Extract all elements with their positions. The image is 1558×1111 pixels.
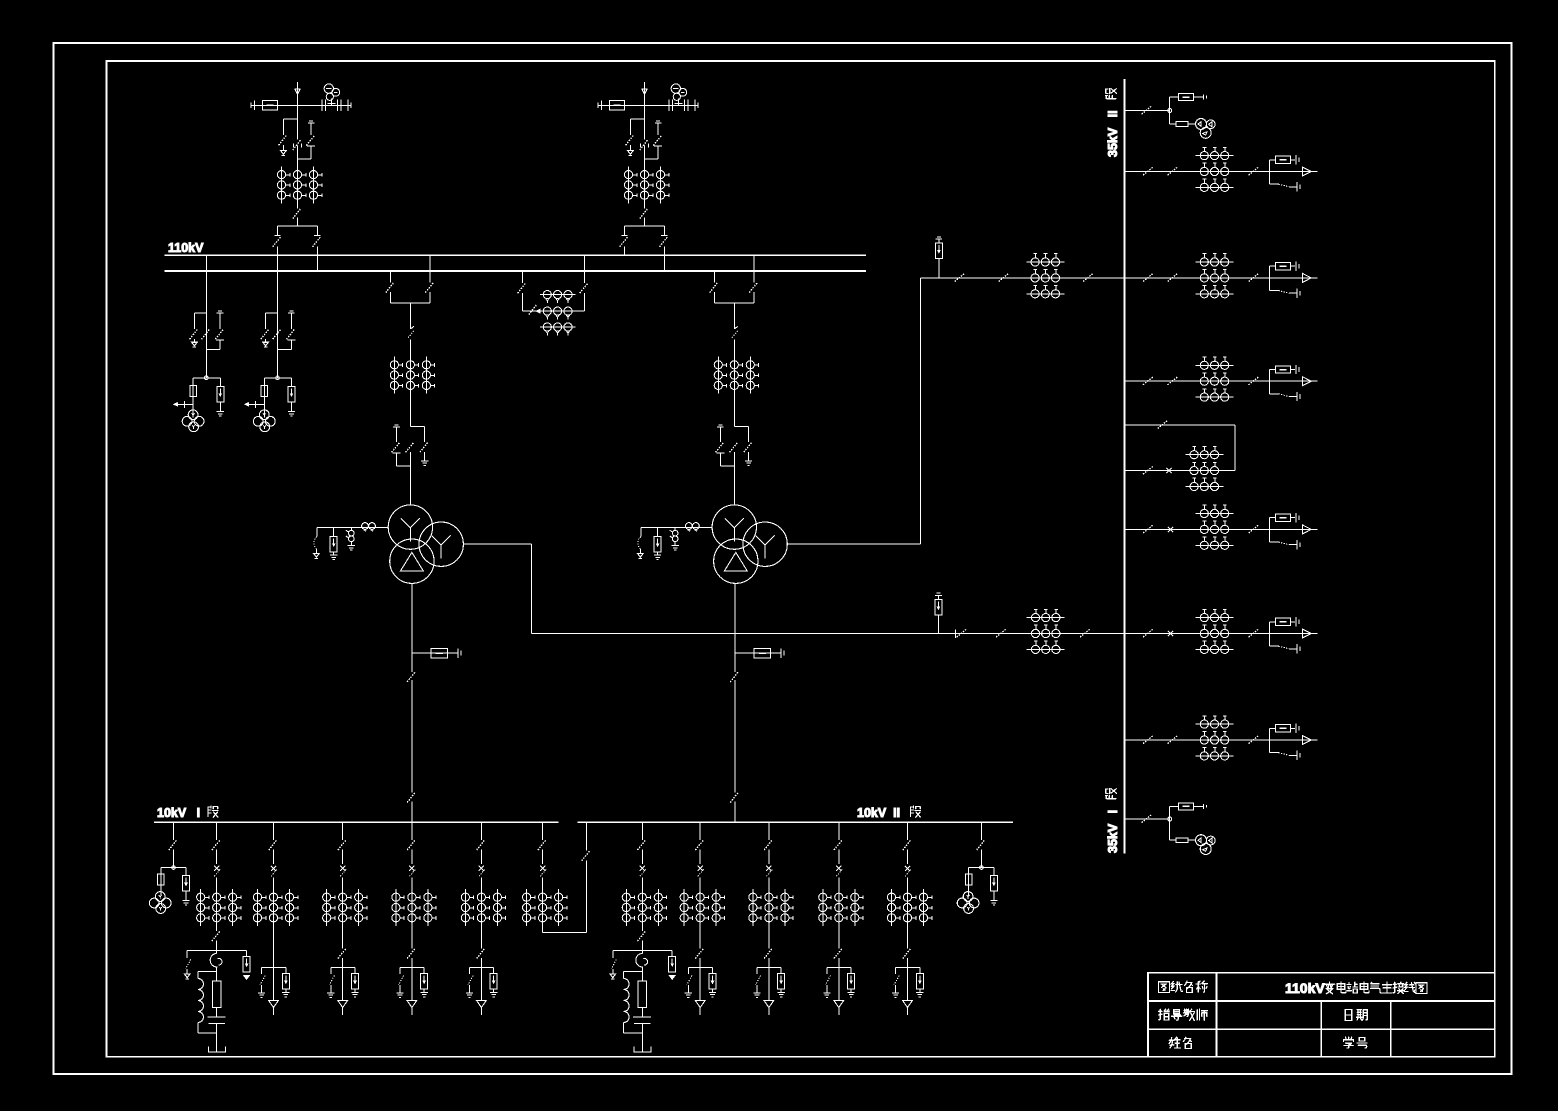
wire [251, 104, 351, 106]
wire [273, 926, 275, 967]
fuse [158, 874, 164, 885]
earthing switch [687, 967, 689, 974]
earthing switch [895, 967, 897, 974]
current transformers [526, 889, 528, 926]
ground [654, 554, 661, 556]
disconnector [644, 203, 646, 208]
wire bracket [161, 867, 186, 869]
disconnector [411, 926, 413, 948]
disconnector [582, 851, 590, 861]
cable arrow [342, 967, 344, 1000]
disconnector [640, 140, 648, 150]
35kV station PT feeder top [1124, 94, 1215, 139]
node [172, 866, 176, 870]
ground [182, 900, 189, 902]
earthing switch [330, 967, 332, 974]
arrester [246, 951, 248, 957]
bus 110kV line B [165, 270, 867, 272]
terminal ticks [597, 103, 599, 108]
disconnector [620, 237, 628, 247]
surge arrester [217, 386, 224, 402]
feeder lower works [685, 926, 716, 1015]
PT branch with fuse [1170, 839, 1177, 841]
drawout breaker and line exit [1269, 266, 1271, 290]
current transformers [891, 889, 893, 926]
neutral resistor [212, 981, 221, 1007]
disconnector [542, 822, 544, 840]
disconnector [386, 282, 394, 292]
T2 LV lead to 10kV bus [734, 583, 736, 672]
current transformers [281, 166, 283, 203]
disconnector [407, 792, 415, 802]
wire [542, 926, 544, 932]
wire [206, 348, 220, 350]
disconnector [293, 140, 301, 150]
35kV feeder L4 [1124, 505, 1317, 549]
disconnector [1143, 273, 1153, 281]
breaker [766, 866, 771, 871]
disconnector [1249, 629, 1259, 637]
line arrow [1303, 167, 1312, 176]
surge arrester [990, 876, 997, 892]
disconnector [411, 822, 413, 840]
wire [641, 1007, 643, 1017]
wire bracket [969, 867, 994, 869]
current transformers [1196, 513, 1234, 515]
CVT voltage transformer [328, 103, 336, 105]
cable arrow [768, 967, 770, 1000]
wire [273, 878, 275, 890]
disconnector [695, 948, 703, 958]
current transformers [625, 889, 627, 926]
surge arrester [282, 974, 289, 990]
discharge gap [674, 528, 676, 531]
disconnector [392, 442, 400, 452]
feeder lower works [396, 926, 427, 1015]
ground [351, 991, 358, 993]
disconnector [1143, 735, 1153, 743]
breaker [1168, 631, 1173, 636]
label char duan [910, 806, 920, 817]
35kV station PT feeder bottom [1124, 803, 1215, 855]
breaker [479, 866, 484, 871]
disconnector [215, 329, 223, 339]
surge arrester [421, 974, 428, 990]
wire [1124, 528, 1317, 530]
transformer disconnector w/ earthing switches [410, 426, 424, 428]
disconnector [477, 840, 485, 850]
wire bracket [522, 310, 584, 312]
disconnector [529, 304, 537, 314]
station transformer [1179, 94, 1194, 101]
line arrow [1303, 274, 1312, 283]
disconnector [212, 840, 220, 850]
fuse + PT [968, 868, 970, 875]
disconnector with earthing switches [266, 312, 278, 314]
earth-switch head [309, 120, 313, 122]
110kV bus PT bay 1 [174, 255, 224, 431]
breaker [698, 866, 703, 871]
drawout breaker and line exit [1269, 622, 1271, 646]
svg-text:10kV I: 10kV I [157, 806, 200, 820]
disconnector [338, 840, 346, 850]
neutral earthing switch [640, 528, 642, 537]
disconnector [768, 926, 770, 948]
neutral arrester [657, 528, 659, 537]
disconnector [293, 208, 301, 218]
disconnector [699, 822, 701, 840]
disconnector [273, 329, 281, 339]
ground [348, 545, 355, 547]
current transformers [1196, 617, 1234, 619]
bus tie breaker bay [523, 822, 567, 926]
disconnector [269, 840, 277, 850]
current transformers [717, 357, 719, 394]
ground [421, 460, 428, 462]
current transformers [1026, 261, 1064, 263]
ground [990, 900, 997, 902]
disconnector [764, 948, 772, 958]
disconnector [1142, 814, 1152, 822]
ground [745, 460, 752, 462]
bus 10kV section II [577, 821, 1013, 823]
breaker [1275, 618, 1290, 625]
transformer T1 MV winding [419, 522, 463, 566]
earthing switch [657, 123, 659, 135]
disconnector [764, 840, 772, 850]
10kV feeder [680, 822, 724, 926]
disconnector [730, 792, 738, 802]
disconnector [730, 442, 738, 452]
section breaker [1166, 468, 1171, 473]
disconnector [1143, 629, 1153, 637]
station transformer branch [1170, 805, 1179, 807]
earthing switch [469, 967, 471, 974]
neutral CTs [686, 523, 693, 530]
surge arrester [183, 876, 190, 892]
earthing switch [826, 967, 828, 974]
disconnector [640, 208, 648, 218]
wire [409, 394, 411, 427]
earth terminal [610, 974, 616, 978]
disconnector [768, 822, 770, 840]
cable arrow [480, 967, 482, 1000]
wire [342, 878, 344, 890]
35kV sectionalised bus [1123, 79, 1125, 853]
disconnector [273, 822, 275, 840]
line trap [262, 100, 277, 110]
disconnector [834, 948, 842, 958]
disconnector [338, 948, 346, 958]
wire [1124, 277, 1317, 279]
feeder lower works [258, 926, 289, 1015]
T1 LV lead to 10kV bus [411, 583, 413, 672]
svg-text:110kV: 110kV [168, 241, 204, 255]
disconnector [1168, 167, 1178, 175]
wire [838, 878, 840, 890]
earthing switch [282, 119, 284, 135]
disconnector [342, 926, 344, 948]
neutral resistor [638, 981, 647, 1007]
earthing transformer hook [216, 951, 218, 954]
surge arrester [778, 974, 785, 990]
wire bracket [827, 966, 851, 968]
T1 tie row equipment [935, 593, 1090, 653]
disconnector [216, 926, 218, 931]
fuse [261, 386, 267, 397]
ground [892, 992, 899, 994]
10kV bus PT bay II [957, 822, 997, 913]
wire [641, 878, 643, 890]
title block table [1148, 973, 1495, 1057]
disconnector [538, 840, 546, 850]
node [1168, 817, 1172, 821]
label char duan [1106, 88, 1117, 98]
transformer disconnector w/ earthing switches [734, 426, 748, 428]
incoming line arrow [644, 82, 646, 105]
disconnector [980, 822, 982, 840]
ground [217, 411, 224, 413]
disconnector [1249, 525, 1259, 533]
10kV feeder [253, 822, 297, 926]
disconnector [1143, 466, 1153, 474]
terminal ticks [250, 103, 252, 108]
voltage transformer [188, 410, 198, 420]
surge arrester [654, 536, 661, 552]
tie disconnector to section II [586, 822, 588, 850]
ground [778, 991, 785, 993]
wire [480, 878, 482, 890]
terminal ticks [347, 100, 349, 112]
disconnector [716, 442, 724, 452]
disconnector [173, 822, 175, 840]
title cell: supervisor label [1158, 1009, 1169, 1020]
ground [685, 992, 692, 994]
disconnector [744, 442, 752, 452]
current transformers [683, 889, 685, 926]
wire [409, 303, 411, 329]
neutral arrester [333, 528, 335, 537]
wire [396, 465, 410, 467]
arrester [712, 967, 714, 973]
three-winding transformer T2 : HV winding [712, 505, 756, 549]
earth-switch head [718, 424, 722, 426]
disconnector [480, 822, 482, 840]
wire bracket [187, 950, 246, 952]
disconnector [518, 283, 526, 293]
current transformers [1196, 155, 1234, 157]
wire [720, 465, 734, 467]
voltage transformer [155, 892, 165, 902]
disconnector [838, 822, 840, 840]
disconnector [297, 203, 299, 208]
earth-switch head [394, 424, 398, 426]
circuit breaker [411, 326, 414, 329]
10kV feeder [461, 822, 505, 926]
wire bracket [331, 966, 355, 968]
earthing switch [1270, 645, 1279, 647]
drawout breaker and line exit [1269, 518, 1271, 542]
wire [283, 118, 297, 120]
title cell: date label [1345, 1010, 1351, 1021]
disconnector [1249, 167, 1259, 175]
wire bracket [613, 950, 672, 952]
drawout breaker and line exit [1269, 370, 1271, 394]
earthing switch [612, 951, 614, 959]
10kV feeder [392, 822, 436, 926]
bus selector bridge [625, 225, 665, 227]
breaker [1275, 725, 1290, 732]
neutral earthing group [317, 527, 388, 529]
ground [916, 991, 923, 993]
earth terminal [314, 554, 320, 558]
current transformers [326, 889, 328, 926]
arrester [185, 868, 187, 876]
current transformers [628, 166, 630, 203]
drawout breaker and line exit [1269, 160, 1271, 184]
35kV feeder L1 [1124, 147, 1317, 191]
wire bracket [470, 966, 494, 968]
label char duan [1106, 788, 1117, 798]
breaker [640, 866, 645, 871]
station transformer [1179, 803, 1194, 810]
drawing frame inner border [107, 61, 1495, 1057]
earth terminal [263, 342, 269, 346]
wire from bus [1124, 110, 1169, 112]
disconnector [1143, 525, 1153, 533]
line trap [609, 100, 624, 110]
disconnector [903, 840, 911, 850]
10kV feeder [819, 822, 863, 926]
disconnector pole from bus B [521, 271, 523, 283]
wire bracket [688, 966, 712, 968]
cable arrow [273, 967, 275, 1000]
wire bracket [262, 966, 286, 968]
breaker [836, 866, 841, 871]
earthing switch [1270, 541, 1279, 543]
capacitor [633, 1016, 651, 1018]
arrester [354, 967, 356, 973]
current transformers [257, 889, 259, 926]
earthing switch [1270, 752, 1279, 754]
disconnector [169, 840, 177, 850]
disconnector [580, 283, 588, 293]
disconnector [660, 237, 668, 247]
ground [258, 992, 265, 994]
disconnector [907, 926, 909, 948]
current transformers [822, 889, 824, 926]
ground [490, 991, 497, 993]
earthing switch [1270, 393, 1279, 395]
disconnector [342, 822, 344, 840]
wire to transformer [409, 452, 411, 505]
disconnector [730, 672, 738, 682]
disconnector (line side) [644, 105, 646, 139]
arrester branch [291, 378, 293, 387]
node junction [276, 376, 280, 380]
earthing switch [310, 123, 312, 135]
circuit breaker [735, 326, 738, 329]
wire [1124, 470, 1235, 472]
breaker [214, 866, 219, 871]
disconnector [1158, 420, 1168, 428]
disconnector pole from bus A [584, 255, 586, 283]
wire bracket [757, 966, 781, 968]
current transformers [1027, 617, 1065, 619]
surge arrester [935, 243, 942, 259]
title cell: drawing name label [1158, 982, 1169, 993]
wire [733, 394, 735, 427]
arrester [285, 967, 287, 973]
breaker [1168, 527, 1173, 532]
PT winding row 1 [540, 294, 576, 296]
current transformers [1196, 261, 1234, 263]
disconnector [957, 629, 967, 637]
arrester [993, 868, 995, 876]
arrester [780, 967, 782, 973]
wire from bus [1124, 818, 1169, 820]
110kV bus PT bay 2 [245, 255, 295, 431]
secondary tap [176, 403, 194, 405]
wire [768, 878, 770, 890]
disconnector [212, 931, 220, 941]
drawout breaker and line exit [1269, 728, 1271, 752]
breaker [1275, 366, 1290, 373]
disconnector [1142, 106, 1152, 114]
breaker [1275, 514, 1290, 521]
bus selector bridge [390, 271, 392, 282]
capacitor [207, 1016, 225, 1018]
disconnector [216, 822, 218, 840]
cable arrow [699, 967, 701, 1000]
disconnector [641, 926, 643, 931]
arc suppression coil [624, 971, 643, 973]
breaker [271, 866, 276, 871]
arrester [493, 967, 495, 973]
wire [216, 878, 218, 890]
disconnector [977, 840, 985, 850]
disconnector [907, 822, 909, 840]
arrester branch [938, 258, 940, 278]
wire bracket [400, 966, 424, 968]
title cell: name label [1169, 1037, 1180, 1048]
disconnector [202, 329, 210, 339]
disconnector [313, 237, 321, 247]
disconnector [477, 948, 485, 958]
earthing switch [261, 967, 263, 974]
disconnector [903, 948, 911, 958]
35kV bus section coupler [1124, 420, 1235, 490]
current transformers [1196, 364, 1234, 366]
neutral CTs [362, 523, 369, 530]
trap on LV tap [431, 648, 447, 658]
ground [288, 411, 295, 413]
wire from bus [277, 255, 279, 378]
surge arrester [709, 974, 716, 990]
current transformers [1196, 723, 1234, 725]
disconnector [641, 822, 643, 840]
10kV feeder [749, 822, 793, 926]
earth terminal [638, 554, 644, 558]
disconnector with earthing switches [194, 312, 206, 314]
35kV feeder L5 [1124, 609, 1317, 653]
node [1168, 109, 1172, 113]
T2 MV feeder row to bus [920, 277, 1124, 279]
wire [542, 878, 544, 890]
ground [823, 992, 830, 994]
ground [709, 991, 716, 993]
disconnector [1168, 273, 1178, 281]
